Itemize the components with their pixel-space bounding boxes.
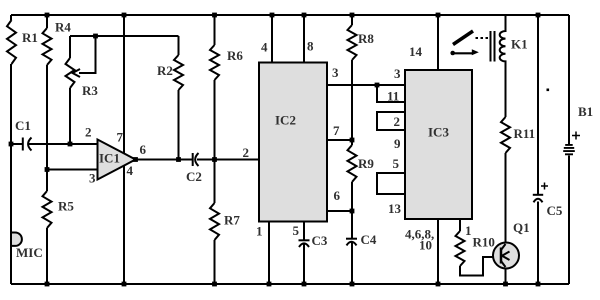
wire R5 column — [46, 170, 48, 285]
relay K1 coil — [500, 15, 506, 117]
resistor R9 — [348, 145, 357, 182]
resistor R10 — [456, 231, 465, 266]
B1 plus sign — [572, 132, 580, 140]
wire right border — [568, 15, 570, 284]
svg-text:C5: C5 — [547, 203, 563, 218]
capacitor C1 — [22, 138, 24, 151]
wire R2 column — [178, 36, 180, 160]
resistor R8 — [348, 25, 357, 60]
wire IC2 pin7 — [327, 139, 352, 141]
svg-text:14: 14 — [409, 44, 423, 59]
wire IC2 pin8 — [303, 15, 305, 63]
svg-text:R6: R6 — [227, 48, 243, 63]
svg-text:1: 1 — [465, 223, 472, 238]
relay K1 switch arm — [453, 31, 473, 45]
resistor R7 — [210, 203, 219, 240]
wire Q1 emitter — [505, 269, 507, 285]
resistor R11 — [501, 117, 510, 153]
transistor Q1 — [493, 243, 519, 269]
capacitor C3 — [299, 239, 310, 241]
svg-text:Q1: Q1 — [513, 220, 530, 235]
svg-text:IC3: IC3 — [428, 125, 449, 140]
wire IC1 output — [136, 159, 260, 161]
resistor R1 — [7, 20, 16, 64]
wire top border — [11, 14, 569, 16]
svg-text:R7: R7 — [224, 213, 240, 228]
wire IC2 pin6 — [327, 210, 352, 212]
op-amp IC1 — [98, 140, 136, 180]
svg-text:K1: K1 — [511, 37, 528, 52]
wire IC3 pin14 — [437, 15, 439, 70]
wire IC3 ground pins — [437, 219, 439, 284]
capacitor C4 — [346, 238, 357, 240]
svg-text:R3: R3 — [82, 83, 98, 98]
svg-text:MIC: MIC — [16, 245, 43, 260]
IC3 pin2 box — [377, 112, 405, 130]
wire mic input — [11, 143, 98, 145]
svg-text:6: 6 — [334, 188, 341, 203]
svg-text:6: 6 — [140, 142, 147, 157]
IC3 pin11 box — [377, 85, 405, 102]
svg-text:R2: R2 — [157, 63, 173, 78]
svg-text:R11: R11 — [514, 126, 536, 141]
svg-text:2: 2 — [243, 145, 250, 160]
wire IC1 pin4 — [123, 165, 125, 284]
wire R4 column — [46, 15, 48, 170]
wire R11 to Q1 collector — [505, 153, 507, 243]
resistor R6 — [210, 45, 219, 80]
capacitor C2 — [192, 153, 194, 166]
svg-text:4: 4 — [261, 40, 268, 55]
svg-text:7: 7 — [117, 130, 124, 145]
svg-text:3: 3 — [89, 171, 96, 186]
capacitor C5 — [533, 194, 543, 196]
svg-text:4: 4 — [127, 163, 134, 178]
svg-text:2: 2 — [85, 125, 92, 140]
wire IC2 pin4 — [271, 15, 273, 63]
wire IC3 pin1 — [459, 219, 461, 231]
svg-text:3: 3 — [332, 65, 339, 80]
wire left border — [10, 15, 12, 284]
wire R6 R7 column — [214, 15, 216, 284]
svg-text:10: 10 — [419, 238, 432, 253]
IC3 pin13 box — [377, 173, 405, 194]
wire IC2 pin1 — [268, 222, 270, 285]
microphone MIC — [11, 233, 22, 246]
svg-text:1: 1 — [256, 224, 263, 239]
resistor R5 — [43, 191, 52, 228]
resistor R2 — [174, 55, 183, 90]
wire bottom border — [11, 283, 569, 285]
svg-text:R4: R4 — [55, 20, 71, 35]
svg-text:C1: C1 — [15, 118, 31, 133]
wire R8 R9 column — [351, 15, 353, 284]
svg-text:5: 5 — [293, 223, 300, 238]
svg-text:C2: C2 — [186, 169, 202, 184]
svg-text:5: 5 — [393, 156, 400, 171]
relay K1 core — [491, 31, 495, 62]
resistor R4 — [43, 28, 52, 65]
svg-text:8: 8 — [307, 39, 314, 54]
C5 plus sign — [541, 183, 548, 190]
svg-text:C3: C3 — [312, 233, 328, 248]
svg-text:11: 11 — [387, 89, 399, 104]
svg-text:IC1: IC1 — [99, 151, 120, 166]
stray dot — [547, 89, 550, 92]
svg-text:13: 13 — [388, 201, 402, 216]
svg-text:R9: R9 — [358, 156, 374, 171]
relay K1 dashed link — [476, 37, 490, 39]
wire node R3 top rail — [70, 35, 179, 37]
wire IC1 pin3 — [47, 169, 98, 171]
svg-text:9: 9 — [394, 136, 401, 151]
IC2 — [259, 63, 327, 222]
svg-text:B1: B1 — [578, 104, 593, 119]
svg-text:R1: R1 — [22, 30, 38, 45]
potentiometer R3 — [66, 58, 75, 88]
svg-text:R5: R5 — [58, 199, 74, 214]
wire C5 column — [537, 15, 539, 284]
wire R3 wiper — [79, 36, 96, 73]
svg-text:C4: C4 — [361, 232, 377, 247]
wire IC2 pin5 — [303, 222, 305, 285]
wire IC2 pin3 to IC3 — [327, 84, 405, 86]
relay K1 contact arrow — [453, 52, 472, 54]
svg-text:R10: R10 — [473, 235, 495, 250]
wire R10 to Q1 base — [460, 257, 494, 276]
svg-text:R8: R8 — [358, 31, 374, 46]
svg-text:3: 3 — [394, 66, 401, 81]
battery B1 — [563, 145, 575, 154]
wire IC1 pin7 — [123, 15, 125, 153]
svg-text:IC2: IC2 — [275, 113, 296, 128]
svg-text:7: 7 — [333, 123, 340, 138]
svg-text:2: 2 — [394, 114, 401, 129]
IC3 — [405, 70, 472, 219]
